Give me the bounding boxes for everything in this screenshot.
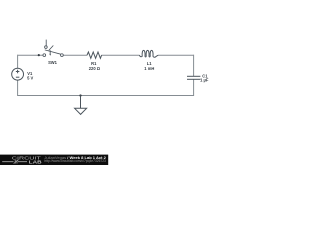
wire left vertical top (rail to V1) (17, 55, 19, 69)
wire bottom rail (18, 95, 194, 97)
SW1 left terminal (43, 54, 46, 57)
wire right vertical to capacitor top (193, 55, 195, 76)
SW1 arrowhead (49, 54, 51, 56)
resistor R1 (87, 52, 102, 58)
SW1 actuator arrow (49, 50, 51, 53)
svg-text:1 mH: 1 mH (144, 66, 154, 71)
wire resistor to inductor (101, 54, 139, 56)
footer black bar (0, 155, 108, 165)
wire left vertical bottom (V1 to bottom rail) (17, 80, 19, 96)
ground junction dot (79, 94, 81, 96)
ground stem (80, 96, 82, 109)
svg-text:LAB: LAB (29, 159, 43, 164)
logo squiggle wire (2, 161, 27, 163)
ground symbol (75, 108, 87, 114)
svg-text:220 Ω: 220 Ω (89, 66, 101, 71)
logo arrow (14, 160, 19, 164)
capacitor C1 (187, 76, 200, 79)
wire inductor to top-right corner (158, 54, 193, 56)
SW1 right terminal (61, 54, 64, 57)
SW1 lever (45, 50, 61, 54)
wire switch to resistor (63, 54, 87, 56)
SW1 top throw circle (45, 46, 48, 49)
SW1 top throw stub (45, 40, 47, 46)
voltage source V1 (12, 68, 24, 80)
SW1 actuator cross (49, 46, 54, 51)
switch SW1 (43, 40, 63, 57)
SW1 wire dot (38, 54, 40, 56)
svg-text:http://www.circuitlab.com/c/7p: http://www.circuitlab.com/c/7pq4e7326723 (44, 159, 106, 163)
svg-text:5 V: 5 V (27, 76, 33, 81)
wire top rail left (V1 top to switch) (18, 54, 43, 56)
svg-text:1 µF: 1 µF (200, 77, 209, 82)
wire capacitor bottom to bottom rail (193, 79, 195, 96)
logo capacitor plates (15, 160, 17, 164)
inductor L1 (139, 50, 158, 57)
svg-text:SW1: SW1 (48, 60, 58, 65)
